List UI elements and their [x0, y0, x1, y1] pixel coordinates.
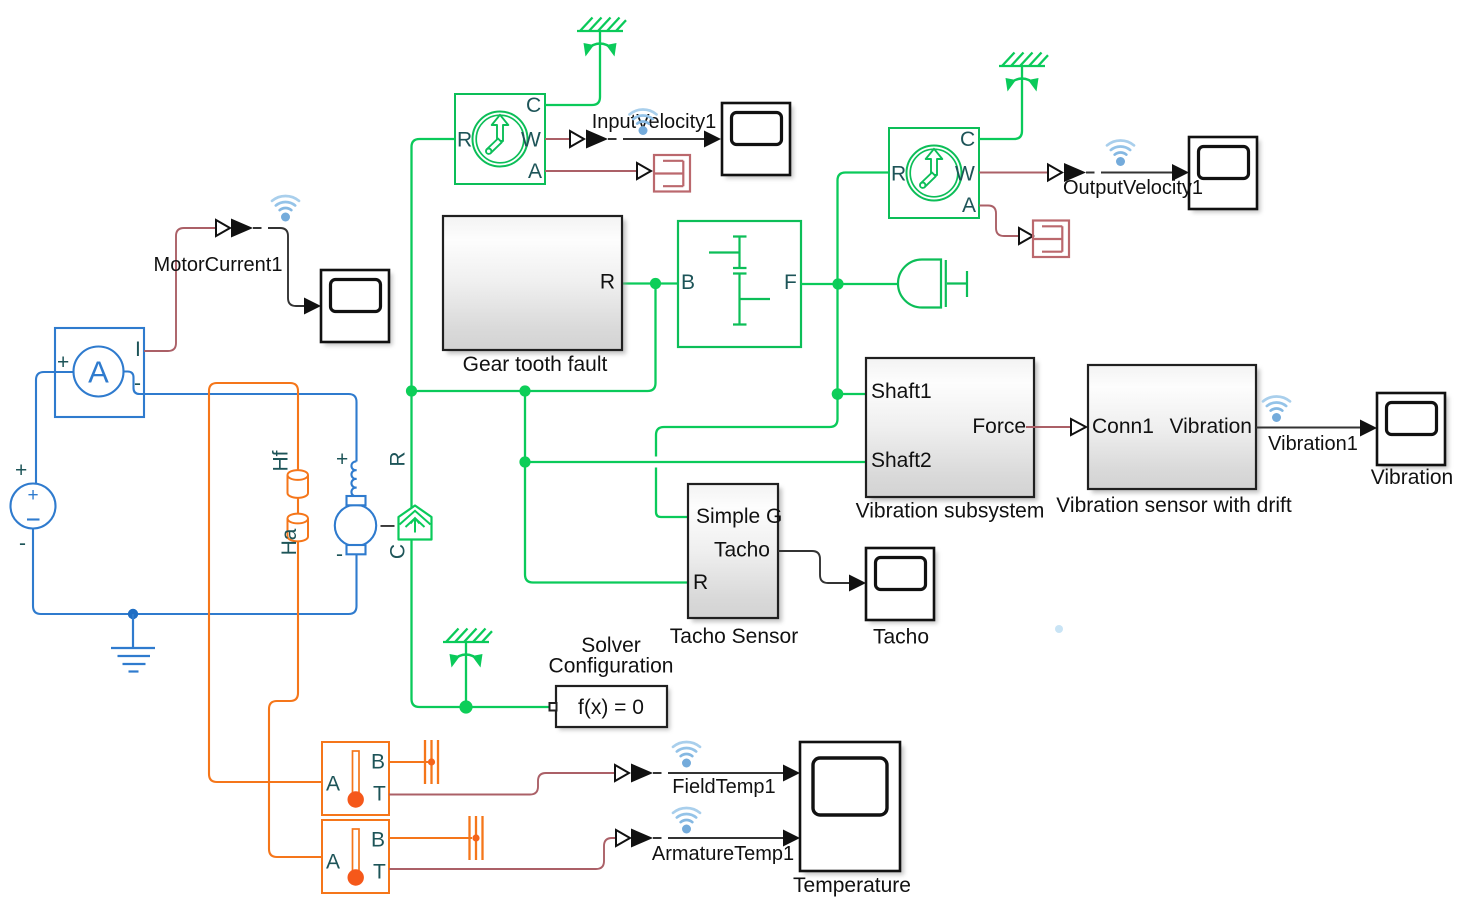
svg-text:I: I: [378, 523, 400, 529]
wireless badge B4: [1263, 396, 1290, 422]
wireless badge B5: [673, 742, 700, 768]
name label: Vibration: [1371, 466, 1454, 489]
arrowhead into scope SC2: [704, 131, 721, 148]
svg-text:R: R: [891, 163, 906, 186]
junction dot D4: [519, 456, 530, 467]
wire W1: voltage source + to ammeter +: [36, 372, 74, 484]
motor port label I (rotated): [378, 523, 400, 529]
svg-text:A: A: [528, 160, 542, 183]
PS converter CV6: [1071, 419, 1086, 435]
name label: Temperature: [793, 874, 911, 897]
signal label ArmatureTemp1: [652, 843, 794, 865]
sensor U3 port label R: [891, 163, 906, 186]
svg-text:Vibration: Vibration: [1169, 415, 1252, 438]
scope SC3 (OutputVelocity): [1189, 137, 1261, 213]
scope SC6 (Temperature): [800, 742, 904, 875]
label Ha (rotated): [278, 528, 301, 555]
wire W20: solver config branch vertical: [465, 642, 467, 707]
wire W5: Hf bottom to Ha top: [297, 498, 299, 517]
svg-text:Vibration subsystem: Vibration subsystem: [856, 500, 1045, 523]
PS-Simulink converter CV4: [1048, 165, 1062, 181]
name label: Tacho: [873, 626, 929, 649]
svg-text:+: +: [15, 459, 27, 482]
name label: Vibration sensor with drift: [1056, 494, 1292, 517]
signal wire S3: [1086, 172, 1173, 174]
svg-text:Tacho: Tacho: [714, 539, 770, 562]
wire W21: ammeter I to converter (maroon): [144, 228, 216, 351]
field winding Hf: [288, 470, 309, 498]
signal label Vibration1: [1268, 433, 1358, 455]
V1 port label +: [15, 459, 27, 482]
signal arrow A2: [586, 130, 608, 149]
signal label MotorCurrent1: [154, 254, 283, 276]
solver configuration block f(x)=0: [550, 686, 671, 730]
wire W25: sensor U3 A to terminator (maroon): [979, 206, 1019, 237]
junction dot D2: [519, 385, 530, 396]
ammeter port label I: [135, 338, 141, 361]
signal wire S2: [608, 138, 705, 140]
label Hf (rotated): [270, 450, 293, 471]
motor port label R (rotated): [387, 451, 410, 466]
wire W17: from Shaft1 junction to Tacho Simple G (with line hop): [656, 394, 838, 517]
sensor U3 port label A: [962, 194, 976, 217]
wire W16: to Vibration subsystem Shaft1: [838, 393, 867, 395]
thermal reference TR1: [425, 740, 438, 784]
arrowhead into scope SC5: [849, 575, 866, 592]
wire W27: TH1 T to converter (maroon): [389, 773, 615, 795]
svg-text:ArmatureTemp1: ArmatureTemp1: [652, 843, 794, 865]
arrowhead into scope SC4: [1360, 420, 1377, 437]
wire W11: down from bus to Shaft2 and Tacho R: [525, 391, 688, 583]
motor port label -: [336, 543, 343, 566]
svg-text:B: B: [681, 271, 695, 294]
wire W9: sensor1 R down the main vertical to solver config: [412, 139, 550, 707]
svg-text:R: R: [600, 271, 615, 294]
junction dot D6: [832, 388, 844, 400]
svg-text:Temperature: Temperature: [793, 874, 911, 897]
wireless badge B2: [630, 109, 657, 135]
wire W14: gearbox F to inertia: [801, 283, 899, 285]
wire W24: sensor U3 W to converter (maroon): [979, 172, 1048, 174]
svg-text:OutputVelocity1: OutputVelocity1: [1063, 177, 1203, 199]
gearbox port label B: [681, 271, 695, 294]
svg-text:A: A: [962, 194, 976, 217]
signal wire S1: to MotorCurrent scope: [253, 228, 305, 306]
arrowhead into scope SC3: [1172, 164, 1189, 181]
name label: Tacho Sensor: [670, 625, 798, 648]
signal wire S5: Tacho to scope: [778, 551, 850, 583]
voltage source V1: [11, 484, 56, 529]
wire W4: thermometer1 A to Hf top: [209, 383, 322, 782]
wireless badge B3: [1107, 140, 1134, 166]
sensor U2 port label W: [521, 129, 541, 152]
svg-text:f(x) = 0: f(x) = 0: [578, 696, 644, 719]
junction dot D5: [832, 278, 843, 289]
subsystem: Vibration sensor with drift: [1088, 365, 1260, 493]
PS converter CV5: [1019, 228, 1033, 244]
ammeter U1 (current sensor): [55, 328, 144, 417]
junction dot D3: [650, 278, 661, 289]
PS-Simulink converter CV7: [615, 765, 629, 781]
arrowhead into Temperature scope port 2: [783, 830, 800, 847]
mechanical rotational reference REF3: [443, 629, 492, 668]
scope SC2 (InputVelocity): [722, 103, 794, 179]
gearbox port label F: [784, 271, 797, 294]
signal arrow A5: [631, 829, 653, 848]
svg-text:MotorCurrent1: MotorCurrent1: [154, 254, 283, 276]
svg-text:Gear tooth fault: Gear tooth fault: [463, 353, 608, 376]
svg-text:Force: Force: [972, 415, 1026, 438]
svg-text:Tacho: Tacho: [873, 626, 929, 649]
rotational motion sensor U2 (input): [455, 94, 545, 184]
signal wire S7: [653, 837, 784, 839]
gearbox GB1: [678, 221, 801, 347]
subsystem: Gear tooth fault: [443, 216, 626, 354]
svg-text:R: R: [693, 571, 708, 594]
svg-text:Configuration: Configuration: [549, 655, 674, 678]
signal label OutputVelocity1: [1063, 177, 1203, 199]
signal arrow A4: [631, 764, 653, 783]
wireless badge B1: [272, 196, 299, 222]
signal wire S4: Vibration to scope: [1256, 427, 1361, 429]
PS converter CV3: [637, 163, 651, 179]
svg-text:Tacho Sensor: Tacho Sensor: [670, 625, 798, 648]
wire W19: sensor U3 C to rotational reference REF2: [979, 66, 1022, 139]
svg-text:W: W: [521, 129, 541, 152]
svg-text:W: W: [955, 163, 975, 186]
thermometer TH1: [322, 742, 389, 815]
arrowhead into Temperature scope port 1: [783, 765, 800, 782]
inertia J1: [898, 260, 967, 308]
svg-text:-: -: [134, 372, 141, 395]
svg-text:A: A: [88, 355, 109, 390]
V1 port label -: [19, 532, 26, 555]
ammeter port label -: [134, 372, 141, 395]
arrowhead into scope SC1: [304, 298, 321, 315]
svg-text:-: -: [336, 543, 343, 566]
signal arrow A3: [1064, 163, 1086, 182]
mechanical rotational reference REF1: [577, 18, 626, 57]
thermal reference TR2: [470, 816, 483, 860]
wire W10: horizontal bus from main line up to gear R-B wire: [412, 284, 656, 392]
svg-text:F: F: [784, 271, 797, 294]
electrical reference (ground) GND1: [111, 614, 155, 672]
PS-Simulink converter CV2: [570, 131, 584, 147]
svg-text:-: -: [19, 532, 26, 555]
armature winding Ha: [288, 514, 309, 542]
svg-text:C: C: [526, 94, 541, 117]
subsystem: Tacho Sensor: [688, 484, 782, 622]
motor port label +: [336, 448, 348, 471]
PS-Simulink converter CV8: [616, 830, 630, 846]
svg-text:FieldTemp1: FieldTemp1: [672, 776, 775, 798]
PS terminator TERM2: [1033, 221, 1069, 258]
svg-text:C: C: [960, 128, 975, 151]
name label: Vibration subsystem: [856, 500, 1045, 523]
svg-text:I: I: [135, 338, 141, 361]
name label: Gear tooth fault: [463, 353, 608, 376]
svg-text:InputVelocity1: InputVelocity1: [592, 111, 717, 133]
ammeter port label +: [57, 351, 69, 374]
signal label FieldTemp1: [672, 776, 775, 798]
wire W7: TH1 B to thermal reference TR1: [389, 761, 428, 763]
wire W12: to Vibration subsystem Shaft2: [525, 461, 866, 463]
svg-text:C: C: [387, 544, 410, 559]
scope SC5 (Tacho): [866, 548, 938, 624]
signal wire S6: [653, 772, 784, 774]
svg-text:+: +: [27, 485, 38, 506]
wire W13: gear tooth fault R to gearbox B: [622, 282, 678, 284]
svg-text:Vibration1: Vibration1: [1268, 433, 1358, 455]
scope SC1 (MotorCurrent): [321, 270, 393, 346]
svg-text:Shaft1: Shaft1: [871, 380, 932, 403]
node N1 junction dot: [128, 609, 138, 619]
sensor U2 port label R: [457, 129, 472, 152]
wire W2: source - to motor - (bottom rail): [33, 529, 357, 615]
svg-text:R: R: [387, 451, 410, 466]
rotational motion sensor U3 (output): [889, 128, 979, 218]
name label: Solver Configuration: [549, 634, 674, 678]
wireless badge B6: [673, 808, 700, 834]
signal arrow A1: [231, 219, 253, 238]
wire W23: sensor U2 A to terminator (maroon): [545, 170, 637, 172]
wire W28: TH2 T to converter (maroon): [389, 838, 616, 869]
motor port label C (rotated): [387, 544, 410, 559]
stray artifact dot: [1055, 625, 1063, 633]
svg-text:Vibration sensor with drift: Vibration sensor with drift: [1056, 494, 1292, 517]
svg-text:Conn1: Conn1: [1092, 415, 1154, 438]
sensor U3 port label C: [960, 128, 975, 151]
wire W3: ammeter - to motor +: [144, 394, 357, 462]
subsystem: Vibration subsystem: [866, 358, 1038, 501]
svg-text:Hf: Hf: [270, 450, 293, 471]
wire W26: Force to converter (maroon): [1026, 426, 1071, 428]
wire W15: sensor2 R to junction on F wire: [838, 173, 890, 395]
PS-Simulink converter CV1: [216, 220, 230, 236]
wire W18: sensor U2 C to rotational reference REF1: [545, 31, 600, 105]
DC motor M1: [335, 461, 376, 554]
svg-text:Vibration: Vibration: [1371, 466, 1454, 489]
junction dot D7: [459, 700, 472, 713]
motor rotational port icon (chevron) R/C: [399, 506, 432, 540]
junction dot D1: [406, 385, 417, 396]
svg-text:Shaft2: Shaft2: [871, 449, 932, 472]
wire W22: sensor U2 W to converter (maroon): [545, 138, 570, 140]
sensor U2 port label C: [526, 94, 541, 117]
svg-text:R: R: [457, 129, 472, 152]
sensor U2 port label A: [528, 160, 542, 183]
svg-text:+: +: [57, 351, 69, 374]
sensor U3 port label W: [955, 163, 975, 186]
scope SC4 (Vibration): [1377, 393, 1449, 469]
signal label InputVelocity1: [592, 111, 717, 133]
wire W8: TH2 B to thermal reference TR2: [389, 837, 472, 839]
PS terminator TERM1: [654, 155, 690, 192]
wire W6: Ha bottom to thermometer2 A: [269, 542, 322, 858]
mechanical rotational reference REF2: [999, 53, 1048, 92]
thermometer TH2: [322, 820, 389, 893]
svg-text:+: +: [336, 448, 348, 471]
svg-text:Simple G: Simple G: [696, 505, 782, 528]
